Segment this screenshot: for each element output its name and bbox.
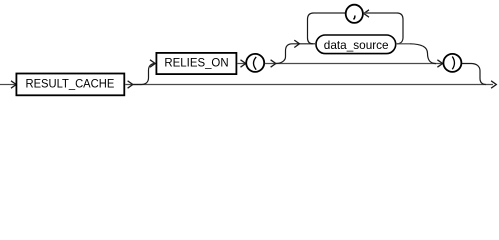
- terminal ): [443, 54, 461, 72]
- wire: comma loop left vertical: [308, 13, 314, 44]
- svg-text:RELIES_ON: RELIES_ON: [164, 57, 228, 69]
- keyword box RELIES_ON: [156, 53, 236, 74]
- arrow into (: [241, 60, 246, 67]
- wire: ) exit curve down to main rail: [462, 64, 486, 85]
- wire: comma loop top right segment: [364, 12, 397, 14]
- wire: ( to ) straight line: [265, 63, 443, 65]
- wire: comma loop right vertical: [397, 13, 403, 44]
- arrow at end of main rail: [491, 81, 496, 88]
- terminal (: [246, 54, 264, 72]
- arrow into data_source: [294, 40, 299, 47]
- keyword box RESULT_CACHE: [16, 74, 124, 96]
- wire: comma loop top left segment: [314, 12, 346, 14]
- wire: main bypass rail: [125, 84, 493, 86]
- wire: curve down from data_source row to ( ) line: [410, 44, 436, 64]
- wire: curve up to data_source row: [276, 44, 315, 64]
- svg-text:data_source: data_source: [324, 38, 389, 52]
- svg-text:RESULT_CACHE: RESULT_CACHE: [26, 76, 115, 90]
- wire: RELIES_ON to (: [237, 63, 245, 65]
- terminal , comma: [346, 5, 363, 23]
- variable pill data_source: [316, 35, 396, 54]
- arrow into ): [437, 60, 442, 67]
- arrow into RELIES_ON: [150, 60, 155, 67]
- arrow after (: [271, 60, 276, 67]
- wire: branch curve up to RELIES_ON: [133, 64, 155, 85]
- wire: data_source exit: [396, 43, 410, 45]
- arrow into comma pointing left: [364, 10, 369, 17]
- arrow into RESULT_CACHE: [11, 81, 16, 88]
- arrow after RESULT_CACHE: [128, 81, 133, 88]
- wire: entry rail: [0, 84, 16, 86]
